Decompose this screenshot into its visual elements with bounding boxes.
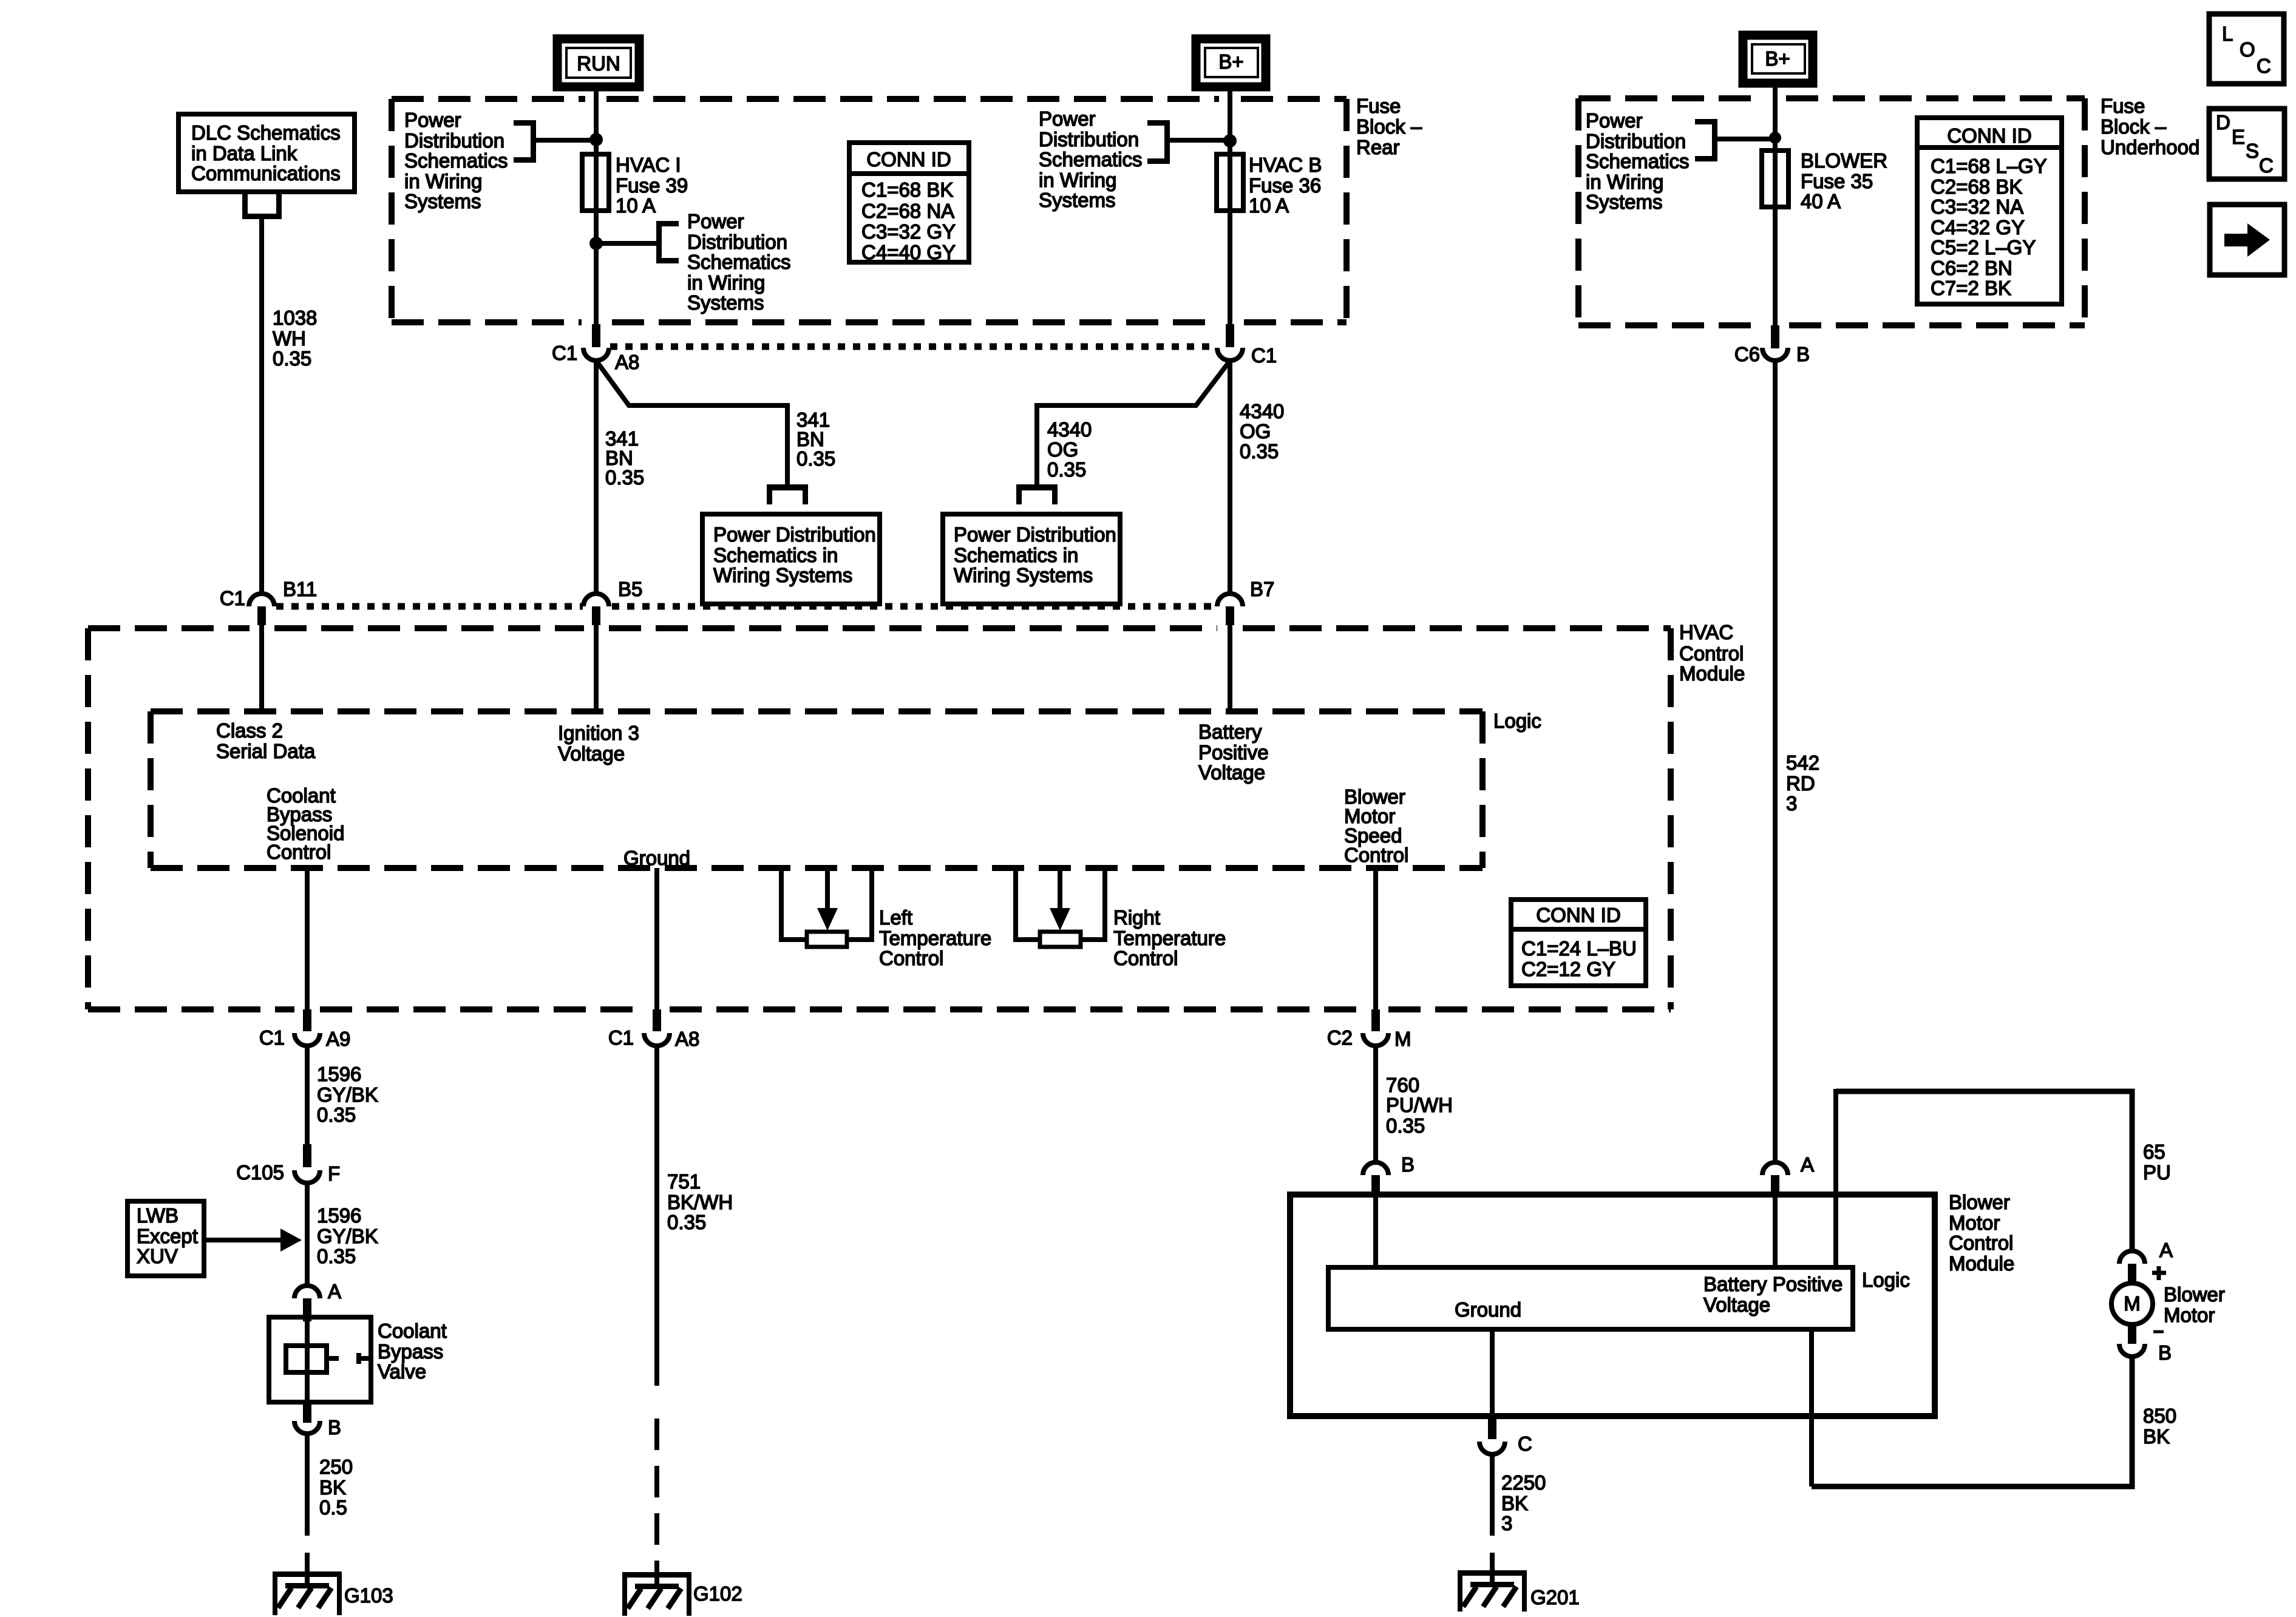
svg-text:C1: C1 (608, 1026, 634, 1049)
potentiometer right temperature control (1013, 869, 1226, 969)
svg-text:4340: 4340 (1047, 418, 1092, 441)
bracket for right note (1147, 120, 1170, 164)
svg-text:in Wiring: in Wiring (1039, 169, 1116, 191)
svg-text:4340: 4340 (1240, 400, 1284, 422)
svg-text:Fuse: Fuse (2101, 95, 2145, 117)
wire 4340 OG down to B7 (1228, 359, 1232, 595)
svg-text:O: O (2240, 38, 2255, 61)
svg-text:Temperature: Temperature (879, 927, 991, 949)
svg-text:G102: G102 (693, 1582, 742, 1605)
svg-text:2250: 2250 (1501, 1471, 1546, 1494)
svg-text:Block –: Block – (1356, 115, 1422, 138)
svg-text:Distribution: Distribution (404, 129, 504, 152)
wire label 751 BK/WH 0.35 (667, 1170, 733, 1233)
svg-text:C105: C105 (236, 1161, 284, 1184)
svg-text:CONN ID: CONN ID (1536, 904, 1620, 926)
connector C1 pin B7 (1217, 578, 1274, 625)
svg-text:XUV: XUV (137, 1245, 178, 1267)
svg-text:C2=68 NA: C2=68 NA (861, 200, 954, 222)
connector pin A (coolant bypass valve) (294, 1280, 341, 1321)
svg-text:in Data Link: in Data Link (191, 142, 297, 164)
svg-text:BLOWER: BLOWER (1801, 149, 1887, 172)
wire class 2 serial data (259, 625, 264, 711)
connector C1 pin B5 (583, 578, 642, 625)
svg-text:Systems: Systems (404, 190, 481, 212)
svg-text:C5=2 L–GY: C5=2 L–GY (1931, 236, 2036, 259)
junction node at B+ feed (1223, 134, 1237, 147)
label HVAC Control Module (1679, 621, 1745, 685)
svg-text:OG: OG (1047, 438, 1078, 461)
svg-text:in Wiring: in Wiring (1586, 171, 1663, 193)
svg-text:Control: Control (1949, 1232, 2013, 1254)
svg-text:10 A: 10 A (616, 194, 656, 217)
conn id table (fuse block underhood) (1917, 118, 2062, 304)
svg-text:Ground: Ground (623, 847, 690, 869)
svg-text:0.35: 0.35 (1047, 458, 1086, 481)
fuse HVAC I Fuse 39 10A (582, 152, 688, 217)
svg-text:Left: Left (879, 906, 912, 929)
svg-text:B: B (1796, 343, 1810, 365)
wire 751 BK/WH dashed part (654, 1419, 659, 1589)
svg-text:10 A: 10 A (1249, 194, 1289, 217)
svg-text:B+: B+ (1218, 50, 1243, 73)
svg-text:Fuse 35: Fuse 35 (1801, 170, 1873, 192)
reference box Power Distribution (left) (702, 514, 880, 604)
svg-text:Systems: Systems (687, 291, 764, 314)
svg-text:Ignition 3: Ignition 3 (558, 722, 639, 744)
svg-text:G201: G201 (1530, 1586, 1580, 1609)
fuse HVAC B Fuse 36 10A (1217, 152, 1322, 217)
note Power Distribution Schematics (left, in rear fuse block) (404, 109, 508, 212)
ground G201 (1458, 1570, 1580, 1612)
svg-text:Rear: Rear (1356, 136, 1400, 158)
svg-text:BK: BK (2143, 1425, 2170, 1448)
connector C1 (right, fuse block exit) (1217, 324, 1277, 367)
label Blower Motor Control Module (1949, 1191, 2014, 1275)
svg-text:Schematics in: Schematics in (954, 544, 1078, 566)
fuse block underhood dashed box (1578, 98, 2085, 325)
pigtail below DLC box (242, 192, 282, 219)
svg-text:RD: RD (1786, 772, 1815, 795)
svg-text:B: B (1401, 1153, 1415, 1176)
wire ignition 3 voltage (594, 625, 599, 711)
connector pin B (blower motor control module) (1363, 1153, 1415, 1198)
fuse block rear dashed box (392, 99, 1347, 322)
svg-text:OG: OG (1240, 420, 1271, 442)
svg-text:Module: Module (1679, 662, 1745, 685)
svg-text:E: E (2232, 126, 2245, 148)
svg-text:Fuse 39: Fuse 39 (616, 174, 688, 197)
connector line C1 (dotted) (610, 344, 1216, 350)
svg-text:Blower: Blower (1949, 1191, 2010, 1213)
svg-text:Logic: Logic (1493, 710, 1541, 732)
svg-text:Control: Control (1113, 947, 1178, 969)
arrow from LWB box to wire (204, 1238, 282, 1242)
svg-text:Voltage: Voltage (558, 742, 625, 765)
svg-text:PU: PU (2143, 1161, 2171, 1184)
coolant bypass valve box (269, 1317, 371, 1402)
svg-text:B+: B+ (1765, 47, 1790, 70)
svg-text:F: F (328, 1162, 340, 1185)
svg-text:Battery: Battery (1198, 720, 1262, 743)
svg-text:850: 850 (2143, 1405, 2176, 1427)
blower motor M circle (2111, 1283, 2153, 1324)
svg-text:0.5: 0.5 (319, 1496, 347, 1519)
svg-text:DLC Schematics: DLC Schematics (191, 121, 341, 144)
label Fuse Block Underhood (2101, 95, 2199, 158)
wire fuse 39 to connector C1 A8 (594, 211, 599, 328)
svg-text:Power: Power (687, 210, 744, 232)
wire 341 BN down to B5 (594, 359, 599, 595)
svg-text:Block –: Block – (2101, 115, 2167, 138)
conn id table (HVAC control module) (1511, 900, 1646, 986)
reference box Power Distribution (right) (943, 514, 1120, 604)
plus sign (2152, 1266, 2166, 1280)
wire fuse 36 to connector C1 (1228, 211, 1232, 328)
reference box DLC Schematics (178, 114, 355, 192)
wire 1596 GY/BK upper (305, 1045, 310, 1147)
ground G103 (273, 1571, 393, 1615)
junction node at RUN feed (589, 133, 603, 146)
svg-text:Fuse: Fuse (1356, 95, 1401, 117)
svg-text:HVAC I: HVAC I (616, 154, 681, 176)
reference box LWB Except XUV (127, 1201, 204, 1276)
wire coolant bypass solenoid control (305, 868, 310, 1009)
wire label 542 RD 3 (1786, 751, 1819, 815)
svg-text:BK: BK (1501, 1492, 1528, 1514)
svg-text:LWB: LWB (137, 1204, 178, 1227)
svg-text:GY/BK: GY/BK (317, 1225, 378, 1247)
svg-text:B5: B5 (618, 578, 642, 600)
legend next-page arrow box (2210, 205, 2284, 275)
label Blower Motor (2164, 1283, 2225, 1326)
svg-text:Power: Power (404, 109, 461, 131)
svg-text:Schematics: Schematics (1586, 150, 1690, 172)
svg-text:1596: 1596 (317, 1063, 361, 1085)
svg-text:Motor: Motor (2164, 1304, 2215, 1326)
svg-text:C3=32 GY: C3=32 GY (861, 220, 956, 243)
svg-text:Except: Except (137, 1225, 198, 1247)
svg-text:0.35: 0.35 (796, 447, 835, 470)
wire 250 BK to G103 (305, 1434, 310, 1536)
svg-text:Right: Right (1113, 906, 1160, 929)
svg-text:C: C (1518, 1432, 1532, 1455)
svg-text:250: 250 (319, 1456, 353, 1478)
svg-text:Systems: Systems (1039, 189, 1116, 211)
wire label 1038 WH 0.35 (273, 307, 317, 370)
svg-text:A: A (2159, 1239, 2173, 1261)
svg-text:Motor: Motor (1949, 1212, 2000, 1234)
connector pin B (coolant bypass valve) (294, 1402, 341, 1439)
svg-text:0.35: 0.35 (317, 1103, 356, 1126)
solenoid element (286, 1346, 327, 1372)
wire 65 PU loop top (1836, 1091, 2132, 1252)
svg-text:3: 3 (1501, 1512, 1512, 1534)
wire 2250 BK to G201 (1490, 1454, 1495, 1536)
fuse BLOWER Fuse 35 40A (1762, 148, 1887, 212)
svg-text:C7=2 BK: C7=2 BK (1931, 277, 2011, 299)
connector pin A (blower motor control module) (1762, 1153, 1814, 1198)
svg-text:Module: Module (1949, 1252, 2014, 1275)
leader wire from junction to bracket (601, 241, 656, 246)
svg-text:751: 751 (667, 1170, 701, 1193)
svg-text:C1: C1 (259, 1026, 285, 1049)
bracket for below-fuse note (656, 221, 679, 263)
svg-text:C6=2 BN: C6=2 BN (1931, 257, 2012, 279)
wire 1038 WH from DLC to C1 B11 (259, 219, 264, 594)
wire label 1596 GY/BK 0.35 (upper) (317, 1063, 378, 1126)
svg-text:Valve: Valve (378, 1360, 426, 1383)
wire 850 BK loop bottom (1812, 1357, 2132, 1486)
label Class 2 Serial Data (216, 719, 316, 762)
svg-text:A8: A8 (675, 1028, 699, 1050)
svg-text:B: B (2158, 1341, 2172, 1364)
svg-text:Communications: Communications (191, 162, 341, 185)
wire label 1596 GY/BK 0.35 (lower) (317, 1204, 378, 1267)
leader wire to B+ feed (1170, 138, 1226, 143)
svg-text:C1=68 BK: C1=68 BK (861, 178, 953, 201)
logic dashed box (151, 711, 1483, 868)
conn id table (fuse block rear) (849, 143, 969, 263)
svg-text:Serial Data: Serial Data (216, 740, 316, 762)
connector C2 pin M (1327, 1009, 1411, 1050)
label Fuse Block Rear (1356, 95, 1422, 158)
note Power Distribution Schematics (right, in rear fuse block) (1039, 107, 1143, 211)
wire branch 341 BN to pigtail (597, 362, 787, 484)
svg-text:Underhood: Underhood (2101, 136, 2199, 158)
svg-text:HVAC B: HVAC B (1249, 154, 1322, 176)
wire 1596 GY/BK lower (305, 1182, 310, 1286)
svg-text:G103: G103 (344, 1584, 393, 1607)
svg-text:C1=68 L–GY: C1=68 L–GY (1931, 155, 2047, 177)
svg-text:760: 760 (1386, 1074, 1419, 1096)
svg-text:0.35: 0.35 (273, 347, 311, 370)
logic box (blower motor control module) (1328, 1267, 1853, 1329)
svg-text:Fuse 36: Fuse 36 (1249, 174, 1321, 197)
svg-text:Distribution: Distribution (687, 231, 787, 253)
wire 751 BK/WH solid part (654, 1045, 659, 1386)
connector C105 pin F (236, 1144, 340, 1185)
svg-text:Schematics: Schematics (1039, 148, 1143, 171)
svg-text:B7: B7 (1250, 578, 1274, 600)
svg-text:65: 65 (2143, 1141, 2165, 1163)
note Power Distribution Schematics (underhood fuse block) (1586, 109, 1690, 213)
svg-text:0.35: 0.35 (317, 1245, 356, 1267)
svg-text:Wiring Systems: Wiring Systems (954, 564, 1093, 586)
svg-text:Positive: Positive (1198, 741, 1269, 764)
connector pin B (blower motor) (2119, 1323, 2172, 1364)
svg-text:Bypass: Bypass (378, 1340, 443, 1363)
leader wire to blower fuse feed (1717, 137, 1771, 141)
HVAC control module dashed box (88, 628, 1671, 1009)
connector pin A (blower motor) (2119, 1239, 2173, 1284)
wire label 4340 OG 0.35 (main) (1240, 400, 1284, 463)
svg-text:40 A: 40 A (1801, 190, 1841, 212)
svg-text:Control: Control (267, 841, 331, 863)
wire branch 4340 OG to pigtail (1037, 362, 1229, 484)
svg-text:C1: C1 (220, 587, 245, 609)
wire B+ to blower fuse 35 (1773, 83, 1778, 153)
svg-text:Schematics: Schematics (687, 251, 791, 273)
wire label 2250 BK 3 (1501, 1471, 1546, 1534)
wire B+ to fuse 36 (1228, 87, 1232, 157)
wire label 341 BN 0.35 (branch) (796, 408, 835, 470)
svg-text:Coolant: Coolant (378, 1320, 447, 1342)
svg-text:A9: A9 (326, 1028, 350, 1050)
svg-text:PU/WH: PU/WH (1386, 1094, 1453, 1116)
svg-text:C3=32 NA: C3=32 NA (1931, 195, 2023, 218)
svg-text:A: A (1801, 1153, 1814, 1176)
svg-text:Schematics in: Schematics in (713, 544, 838, 566)
connector C1 pin B11 (220, 578, 317, 625)
label Blower Motor Speed Control (1344, 785, 1408, 866)
connector C1 pin A9 (259, 1009, 351, 1050)
svg-text:Power Distribution: Power Distribution (713, 523, 876, 546)
svg-text:Voltage: Voltage (1198, 761, 1265, 784)
ground G102 (622, 1572, 742, 1616)
svg-text:Control: Control (1679, 642, 1744, 665)
svg-text:Power: Power (1039, 107, 1096, 130)
svg-text:HVAC: HVAC (1679, 621, 1733, 643)
svg-text:CONN ID: CONN ID (866, 148, 951, 171)
svg-text:Distribution: Distribution (1586, 130, 1686, 152)
power symbol B+ box (fuse block underhood) (1743, 35, 1813, 83)
wire label 760 PU/WH 0.35 (1386, 1074, 1453, 1137)
bracket for underhood note (1695, 119, 1717, 161)
svg-text:C1: C1 (1251, 344, 1277, 367)
svg-text:Control: Control (879, 947, 943, 969)
svg-text:1596: 1596 (317, 1204, 361, 1227)
junction node below fuse 39 (589, 237, 603, 250)
svg-text:Ground: Ground (1455, 1298, 1521, 1321)
svg-text:Voltage: Voltage (1703, 1293, 1770, 1316)
svg-text:C2=68 BK: C2=68 BK (1931, 175, 2022, 198)
wire label 250 BK 0.5 (319, 1456, 353, 1519)
svg-text:0.35: 0.35 (1386, 1114, 1425, 1137)
svg-text:M: M (1394, 1028, 1411, 1050)
svg-text:0.35: 0.35 (1240, 440, 1279, 463)
svg-text:C: C (2259, 154, 2274, 177)
potentiometer left temperature control (779, 869, 991, 969)
blower motor control module box (1290, 1195, 1935, 1416)
svg-text:RUN: RUN (577, 52, 620, 75)
minus sign (2153, 1331, 2164, 1334)
connector line C1 (dotted, lower) (276, 603, 1216, 610)
svg-text:B11: B11 (283, 578, 317, 600)
svg-text:Schematics: Schematics (404, 149, 508, 172)
svg-text:M: M (2124, 1292, 2141, 1315)
svg-text:BK: BK (319, 1476, 346, 1499)
svg-text:Temperature: Temperature (1113, 927, 1226, 949)
svg-text:S: S (2246, 140, 2259, 162)
wire label 341 BN 0.35 (main) (605, 427, 644, 489)
svg-text:BK/WH: BK/WH (667, 1191, 733, 1213)
connector C6 pin B (underhood exit) (1734, 325, 1810, 365)
label Coolant Bypass Valve (378, 1320, 447, 1383)
svg-text:C: C (2257, 55, 2271, 77)
svg-text:Power: Power (1586, 109, 1643, 132)
svg-text:Distribution: Distribution (1039, 128, 1139, 151)
junction node at blower fuse feed (1769, 132, 1781, 144)
wire ground (HVAC) (654, 868, 659, 1009)
svg-text:Class 2: Class 2 (216, 719, 283, 742)
connector C1 pin A8 (ground) (608, 1009, 700, 1050)
label Ignition 3 Voltage (558, 722, 639, 765)
svg-text:A8: A8 (615, 351, 639, 373)
wire label 65 PU (2143, 1141, 2171, 1184)
svg-text:0.35: 0.35 (667, 1211, 706, 1233)
svg-text:0.35: 0.35 (605, 466, 644, 489)
svg-text:3: 3 (1786, 792, 1797, 815)
svg-text:Power Distribution: Power Distribution (954, 523, 1116, 546)
pigtail above left power distribution box (767, 484, 808, 504)
label Coolant Bypass Solenoid Control (267, 784, 344, 863)
bracket for left note (514, 120, 536, 163)
pigtail above right power distribution box (1016, 484, 1058, 504)
wire label 850 BK (2143, 1405, 2176, 1448)
svg-text:C6: C6 (1734, 343, 1760, 365)
leader wire to RUN feed (536, 138, 592, 143)
svg-text:B: B (328, 1416, 341, 1439)
legend LOC box (2209, 14, 2284, 84)
svg-text:C1=24 L–BU: C1=24 L–BU (1521, 937, 1637, 960)
svg-text:L: L (2222, 22, 2233, 45)
svg-text:C4=32 GY: C4=32 GY (1931, 216, 2025, 239)
power symbol B+ box (fuse block rear) (1196, 39, 1266, 87)
wire blower motor speed control (1373, 868, 1378, 1009)
wire battery positive voltage (1228, 625, 1232, 711)
wire 760 PU/WH from C2 M to module B (1373, 1045, 1378, 1162)
wire RUN to fuse 39 (594, 87, 599, 157)
svg-text:C2: C2 (1327, 1026, 1353, 1049)
legend DESC box (2209, 109, 2284, 179)
svg-text:WH: WH (273, 327, 306, 350)
svg-text:Systems: Systems (1586, 191, 1663, 213)
svg-text:1038: 1038 (273, 307, 317, 329)
svg-text:D: D (2216, 111, 2230, 134)
svg-text:Logic: Logic (1862, 1269, 1910, 1291)
svg-text:A: A (328, 1280, 341, 1303)
label Battery Positive Voltage (1198, 720, 1269, 784)
svg-text:C1: C1 (552, 342, 577, 364)
wire fuse 35 to connector C6 B (1773, 207, 1778, 328)
note Power Distribution Schematics (below HVAC I fuse) (687, 210, 791, 314)
svg-text:Control: Control (1344, 844, 1408, 866)
svg-text:C2=12 GY: C2=12 GY (1521, 958, 1615, 980)
svg-text:542: 542 (1786, 751, 1819, 774)
svg-text:in Wiring: in Wiring (404, 170, 482, 192)
connector C1 pin A8 (fuse block exit) (552, 324, 639, 373)
svg-text:Blower: Blower (2164, 1283, 2225, 1306)
wire 542 RD 3 from C6 B to blower module A (1773, 359, 1778, 1162)
wire label 4340 OG 0.35 (branch) (1047, 418, 1092, 481)
label Battery Positive Voltage (blower module) (1703, 1273, 1843, 1316)
power symbol RUN box (557, 39, 639, 87)
svg-text:CONN ID: CONN ID (1947, 124, 2031, 147)
svg-text:Battery Positive: Battery Positive (1703, 1273, 1843, 1295)
svg-text:C4=40 GY: C4=40 GY (861, 241, 956, 263)
svg-text:in Wiring: in Wiring (687, 271, 765, 294)
svg-text:Wiring Systems: Wiring Systems (713, 564, 852, 586)
connector pin C (blower motor control module) (1479, 1416, 1532, 1455)
wires into logic box (1376, 1089, 1836, 1486)
svg-text:GY/BK: GY/BK (317, 1083, 378, 1106)
